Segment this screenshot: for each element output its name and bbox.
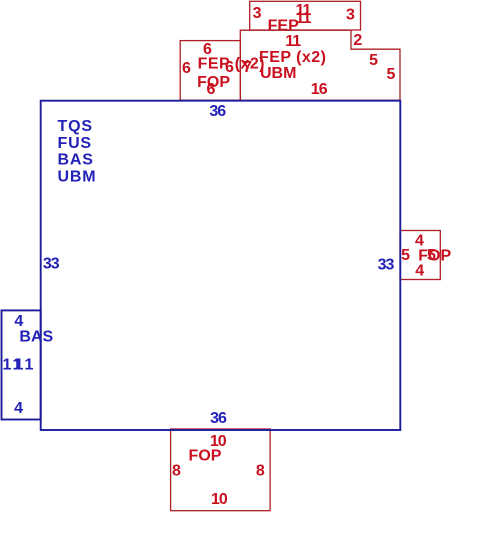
module BAS (left blue rectangle) bbox=[2, 310, 41, 419]
svg-text:5: 5 bbox=[369, 52, 378, 69]
svg-text:TQS: TQS bbox=[58, 118, 93, 135]
module FEP/FOP (top-left rectangle) bbox=[180, 41, 240, 101]
svg-text:8: 8 bbox=[172, 462, 181, 479]
main room outline (blue rectangle) bbox=[41, 101, 401, 430]
svg-text:11: 11 bbox=[285, 33, 301, 50]
svg-text:UBM: UBM bbox=[260, 65, 296, 82]
svg-text:FEP (x2): FEP (x2) bbox=[259, 49, 326, 66]
svg-text:6: 6 bbox=[182, 60, 191, 77]
svg-text:36: 36 bbox=[210, 410, 227, 427]
svg-text:10: 10 bbox=[211, 491, 228, 508]
svg-text:BAS: BAS bbox=[58, 152, 94, 169]
svg-text:5: 5 bbox=[386, 66, 395, 83]
svg-text:33: 33 bbox=[43, 256, 60, 273]
svg-text:16: 16 bbox=[311, 81, 328, 98]
svg-text:2: 2 bbox=[353, 32, 362, 49]
svg-text:4: 4 bbox=[415, 263, 424, 280]
svg-text:BAS: BAS bbox=[19, 329, 53, 346]
svg-text:36: 36 bbox=[209, 103, 226, 120]
svg-text:FOP: FOP bbox=[197, 74, 230, 91]
module FEP (top rectangle) bbox=[250, 1, 361, 30]
module FOP (bottom rectangle) bbox=[171, 429, 271, 511]
svg-text:11: 11 bbox=[15, 357, 36, 374]
svg-text:4: 4 bbox=[14, 400, 23, 417]
svg-text:5: 5 bbox=[401, 247, 410, 264]
svg-text:33: 33 bbox=[378, 257, 395, 274]
module FEP (x2)/UBM polygon bbox=[240, 30, 400, 100]
svg-text:FUS: FUS bbox=[58, 135, 92, 152]
svg-text:8: 8 bbox=[256, 462, 265, 479]
svg-text:FEP (x2): FEP (x2) bbox=[198, 56, 265, 73]
svg-text:UBM: UBM bbox=[58, 169, 97, 186]
svg-text:3: 3 bbox=[253, 5, 262, 22]
svg-text:FOP: FOP bbox=[189, 447, 222, 464]
module FOP (right rectangle) bbox=[400, 231, 440, 280]
svg-text:3: 3 bbox=[346, 6, 355, 23]
